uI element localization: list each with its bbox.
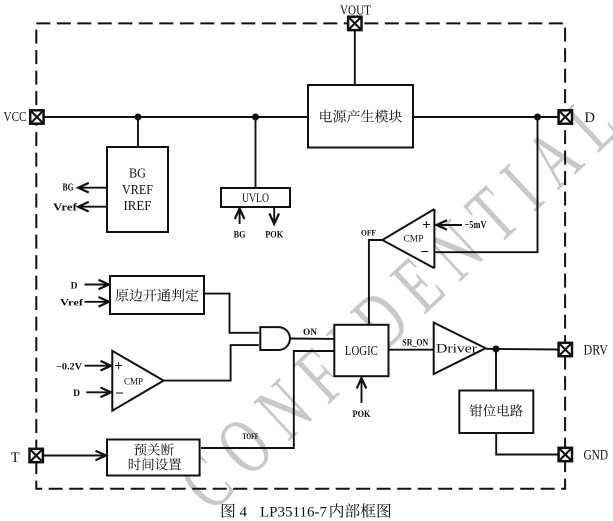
wire POK out of UVLO — [273, 207, 275, 222]
wire VOUT to power block — [354, 30, 356, 85]
wire BG reference output — [80, 187, 107, 189]
wire SR_ON: LOGIC to Driver — [389, 349, 434, 351]
op-amp U4 comparator CMP (OFF detect, -5mV) — [382, 209, 434, 268]
junction rail node B — [252, 114, 259, 121]
AND gate U7 — [260, 327, 290, 350]
svg-text:Vref: Vref — [60, 299, 84, 309]
pin GND (crossed-square terminal) — [559, 448, 572, 461]
arrowhead UVLO POK out — [269, 214, 279, 225]
label U10 text 钳位电路 — [470, 404, 523, 416]
wire Vref reference output — [80, 206, 107, 208]
wire VCC rail to D — [44, 116, 559, 118]
block U11 pre-shutdown time set (预关断时间设置) — [107, 440, 200, 476]
arrowhead LOGIC POK in — [357, 378, 367, 389]
svg-text:LOGIC: LOGIC — [345, 343, 378, 358]
wire OFF output to LOGIC — [369, 240, 382, 325]
svg-text:Vref: Vref — [53, 203, 78, 214]
svg-text:Driver: Driver — [436, 341, 478, 356]
svg-text:D: D — [585, 110, 595, 126]
arrowhead CMP2 plus in — [101, 361, 112, 371]
op-amp U6 comparator CMP (-0.2V detect) — [112, 351, 163, 411]
arrowhead BG out — [78, 183, 89, 193]
label U11 text line1 预关断 — [134, 443, 174, 456]
label caption 图 — [222, 504, 235, 518]
pin DRV (crossed-square terminal) — [559, 343, 572, 356]
svg-text:BG: BG — [234, 231, 247, 241]
svg-text:−: − — [420, 244, 429, 260]
svg-text:−0.2V: −0.2V — [56, 362, 82, 372]
IC boundary dashed frame — [36, 23, 565, 488]
pin VCC (crossed-square terminal) — [30, 110, 43, 123]
arrowhead U5 Vref in — [99, 297, 110, 307]
wire CMP2 output to AND — [164, 345, 259, 381]
svg-text:D: D — [71, 281, 78, 291]
svg-text:+: + — [422, 217, 431, 233]
wire Driver output to DRV — [486, 348, 559, 351]
svg-text:4: 4 — [240, 504, 248, 520]
svg-text:SR_ON: SR_ON — [402, 338, 428, 348]
block U5 primary-side turn-on detect (原边开通判定) — [110, 276, 204, 314]
wire TOFF to LOGIC — [201, 351, 334, 448]
svg-text:VREF: VREF — [122, 182, 153, 197]
svg-text:GND: GND — [584, 448, 609, 464]
svg-text:VCC: VCC — [4, 110, 27, 125]
wire clamp to GND — [496, 433, 559, 455]
svg-text:CMP: CMP — [404, 235, 424, 245]
svg-text:VOUT: VOUT — [340, 3, 371, 18]
wire T to U11 — [43, 455, 105, 457]
svg-text:IREF: IREF — [124, 198, 152, 213]
wire Vref into U5 — [85, 301, 108, 303]
wire POK into LOGIC — [361, 379, 363, 404]
block U8 LOGIC — [334, 325, 388, 376]
svg-text:TOFF: TOFF — [243, 432, 259, 441]
svg-text:ON: ON — [303, 328, 317, 338]
arrowhead CMP2 minus in — [101, 388, 112, 398]
junction rail node C (D sense) — [534, 114, 541, 121]
svg-text:POK: POK — [265, 231, 284, 241]
svg-text:LP35116-7: LP35116-7 — [260, 504, 327, 521]
pin VOUT (crossed-square terminal) — [348, 17, 361, 30]
svg-text:−5mV: −5mV — [465, 220, 487, 231]
wire ON: AND output to LOGIC — [290, 338, 334, 340]
svg-text:POK: POK — [353, 410, 372, 420]
wire node to clamp — [495, 349, 497, 391]
pin D (crossed-square terminal) — [559, 110, 572, 123]
block U1 power generation module (电源产生模块) — [308, 85, 413, 148]
watermark CONFIDENTIAL — [162, 79, 613, 521]
wire D into U5 — [85, 284, 108, 286]
wire U5 output to AND — [204, 294, 259, 333]
pin T (crossed-square terminal) — [30, 449, 43, 462]
svg-text:+: + — [114, 358, 123, 374]
svg-text:CMP: CMP — [124, 377, 143, 387]
svg-text:BG: BG — [63, 183, 74, 194]
svg-text:UVLO: UVLO — [242, 190, 269, 205]
svg-text:DRV: DRV — [584, 343, 609, 359]
svg-text:−: − — [115, 386, 124, 402]
amplifier U9 Driver — [434, 323, 486, 374]
label U1 text 电源产生模块 — [320, 110, 402, 123]
junction rail node A — [135, 114, 142, 121]
block U10 clamp circuit (钳位电路) — [459, 391, 533, 434]
arrowhead CMP1 plus in — [437, 220, 448, 230]
wire D sense to CMP1 minus input — [436, 117, 538, 252]
label caption 内部框图 — [330, 503, 390, 518]
wire -0.2V into CMP2 plus — [85, 365, 111, 367]
arrowhead UVLO BG in — [235, 209, 245, 220]
junction driver output node — [493, 346, 500, 353]
svg-text:D: D — [73, 389, 80, 399]
arrowhead U5 D in — [99, 280, 110, 290]
svg-text:T: T — [11, 450, 20, 466]
svg-text:BG: BG — [129, 166, 146, 181]
wire -5mV into CMP1 plus — [438, 224, 463, 226]
block U2 BG/VREF/IREF references — [107, 147, 168, 232]
svg-text:OFF: OFF — [361, 229, 376, 238]
label U11 text line2 时间设置 — [129, 458, 181, 470]
wire D into CMP2 minus — [86, 391, 110, 393]
arrowhead U11 T in — [96, 451, 107, 461]
wire rail to BG/VREF/IREF block — [137, 117, 139, 147]
label U5 text 原边开通判定 — [116, 289, 199, 302]
wire rail to UVLO — [255, 117, 257, 188]
block U3 UVLO — [221, 188, 290, 207]
wire BG into UVLO — [239, 209, 241, 224]
arrowhead Vref out — [78, 202, 89, 212]
